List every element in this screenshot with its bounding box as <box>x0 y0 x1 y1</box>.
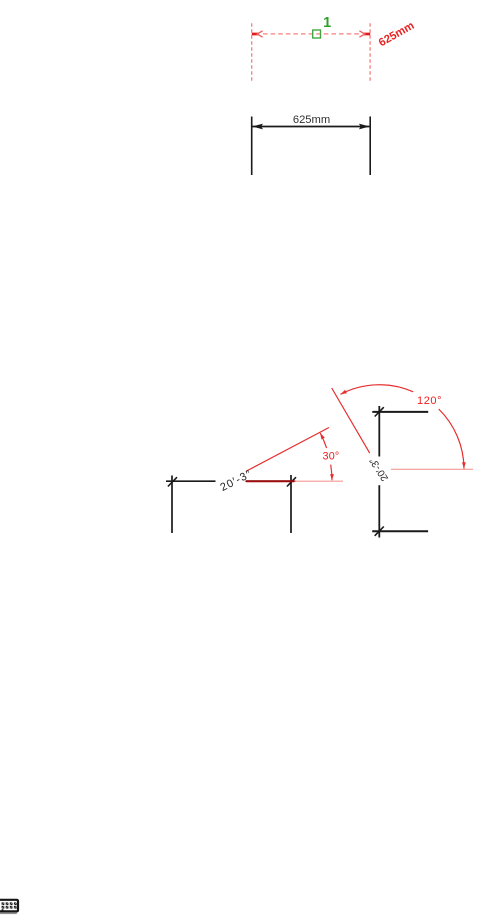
black dimension: right arrowhead <box>359 124 370 130</box>
30deg figure: white gap for rotated text <box>216 470 246 483</box>
30deg figure: horizontal dimension line (black) <box>166 480 296 482</box>
grip square (green handle) <box>313 30 321 38</box>
120deg figure: red diagonal leg <box>332 388 370 453</box>
120deg figure: vertical dimension line upper part <box>378 406 380 457</box>
svg-text:625mm: 625mm <box>293 114 330 126</box>
black dimension: left extension line <box>251 117 253 176</box>
30deg figure: vertical line A <box>171 476 173 534</box>
30deg figure: dark red overlap segment <box>246 480 295 482</box>
black dimension: dimension line <box>253 126 370 128</box>
dashed dimension: left extension line <box>251 23 253 82</box>
120deg figure: arc segment upper <box>341 385 414 395</box>
120deg figure: bottom horizontal line <box>372 530 428 532</box>
30deg figure: vertical line B <box>290 475 292 533</box>
120deg figure: tick slash at top corner <box>375 407 384 416</box>
dashed dimension: right extension line <box>369 23 371 82</box>
30deg figure: arc segment upper <box>320 433 326 448</box>
30deg figure: arc arrowhead upper <box>320 433 325 439</box>
30deg figure: arc segment lower <box>331 465 332 481</box>
120deg figure: arc arrowhead upper <box>341 390 347 395</box>
svg-text:120°: 120° <box>417 395 442 407</box>
30deg figure: tick slash at B <box>287 477 296 486</box>
svg-text:30°: 30° <box>323 451 340 463</box>
dashed dimension: right arrow chevron <box>359 31 364 37</box>
120deg figure: arc arrowhead lower <box>462 462 466 468</box>
30deg figure: light red horizontal leg <box>295 480 344 482</box>
dashed dimension: left arrow chevron <box>257 31 262 37</box>
dashed dimension: left arrow solid tip <box>252 33 259 36</box>
30deg figure: arc arrowhead lower <box>330 474 334 480</box>
30deg figure: tick slash at A <box>168 477 177 486</box>
black dimension: left arrowhead <box>252 124 263 130</box>
120deg figure: top horizontal line <box>372 411 428 413</box>
30deg figure: red diagonal leg <box>247 428 330 472</box>
dashed dimension: right arrow solid tip <box>364 33 371 36</box>
keyboard icon <box>0 900 18 914</box>
120deg figure: arc segment lower <box>439 409 464 469</box>
120deg figure: tick slash at bottom corner <box>375 527 384 536</box>
120deg figure: light red horizontal leg <box>391 468 473 470</box>
black dimension: right extension line <box>369 117 371 176</box>
svg-text:1: 1 <box>323 15 331 31</box>
dashed dimension: dimension line <box>263 33 360 35</box>
120deg figure: vertical dimension line lower part <box>378 485 380 537</box>
